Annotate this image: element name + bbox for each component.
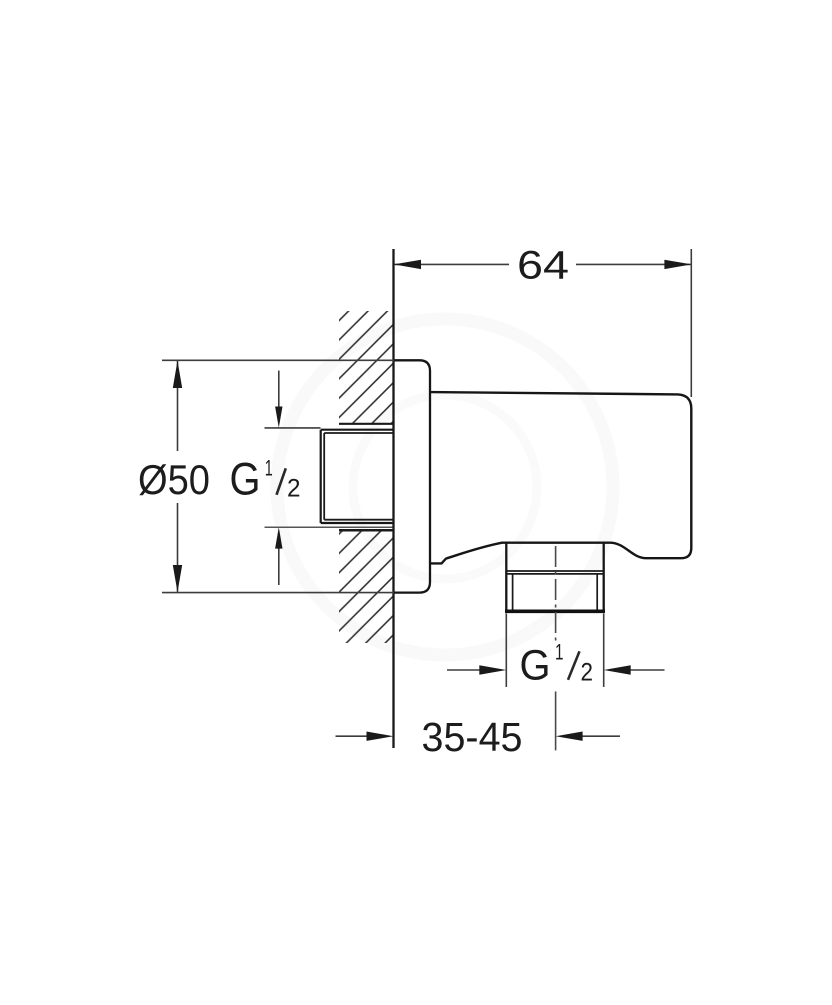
dim D50 line + arrows	[173, 361, 182, 593]
dim 35-45 arrows	[336, 732, 621, 741]
dim D50 top extension line	[162, 359, 394, 361]
outlet flange right edge	[603, 543, 605, 611]
centerline of outlet	[555, 546, 557, 641]
faint watermark	[277, 319, 613, 655]
small dim top extension line	[265, 427, 321, 429]
union nut inner top	[324, 432, 393, 434]
svg-text:Ø50: Ø50	[138, 456, 210, 503]
wall hole bottom edge	[339, 529, 394, 532]
outlet inner left chamfer line	[512, 574, 514, 610]
svg-text:35-45: 35-45	[422, 714, 523, 760]
union nut inner bottom	[324, 519, 393, 521]
small dim top arrow	[275, 371, 282, 585]
wall surface line	[392, 249, 394, 748]
dim G 1/2 bottom extension right	[603, 614, 605, 688]
outlet flange left edge	[505, 543, 507, 611]
outlet bottom thick face	[505, 609, 605, 613]
union nut outer bottom	[321, 522, 394, 524]
body outline	[430, 392, 691, 563]
wall hatching lower part	[339, 531, 393, 644]
dim G 1/2 bottom arrows	[447, 665, 665, 674]
union nut outer top	[321, 429, 394, 431]
dim G 1/2 bottom extension left	[505, 614, 507, 688]
wall hole top edge	[339, 423, 394, 425]
outlet double line lower	[506, 573, 603, 575]
svg-text:G: G	[230, 453, 261, 504]
outlet inner right chamfer line	[596, 574, 598, 610]
label G 1/2 left : slash	[277, 468, 286, 495]
svg-text:64: 64	[517, 243, 569, 287]
dim 64 right extension line	[690, 249, 692, 397]
outlet double line upper	[506, 570, 603, 572]
union nut inner left	[323, 433, 325, 520]
dim D50 bottom extension line	[162, 592, 394, 594]
svg-text:1: 1	[265, 455, 273, 480]
label G 1/2 bottom : slash	[568, 651, 580, 680]
svg-text:1: 1	[555, 640, 564, 665]
small dim bottom extension line	[265, 526, 393, 528]
dim 64 left arrow+line	[394, 260, 692, 269]
svg-text:2: 2	[581, 659, 594, 687]
escutcheon plate	[394, 360, 431, 592]
wall hatching upper part	[339, 311, 393, 424]
union nut outer left	[320, 430, 322, 523]
svg-text:G: G	[520, 641, 551, 689]
svg-text:2: 2	[287, 475, 301, 503]
